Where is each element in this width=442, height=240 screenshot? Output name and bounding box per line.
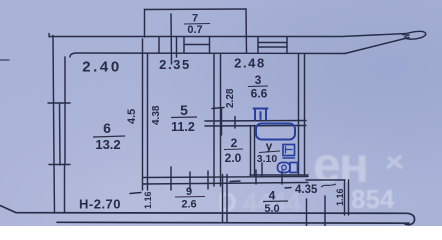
left inner wall lower: [64, 164, 66, 212]
top wall outer line: [49, 34, 407, 38]
window 1 right jamb: [209, 37, 211, 53]
room 5 label 5 over 11.2: [171, 102, 197, 134]
corridor top wall lower line: [143, 183, 308, 185]
svg-text:2.35: 2.35: [159, 57, 191, 72]
bath door tick: [261, 163, 263, 177]
window 2 sill line upper: [258, 42, 287, 44]
window 1 sill line: [184, 44, 210, 46]
vent symbol: [254, 109, 268, 120]
balcony label 7 over 0.7: [184, 13, 210, 37]
wall corridors divider line a: [222, 175, 224, 223]
dash on corridor wall: [230, 180, 240, 183]
lobby top line: [306, 179, 345, 181]
left outer wall upper: [52, 36, 55, 104]
right wall line b: [304, 54, 306, 174]
window tick a: [158, 37, 160, 53]
wall room2 bath line b: [254, 126, 256, 177]
toilet bowl: [278, 163, 291, 173]
lobby wall line a: [344, 180, 346, 215]
wall room3 bath upper line: [205, 120, 306, 123]
balcony left edge wall: [144, 10, 146, 38]
corridor label 9 over 2.6: [175, 186, 205, 211]
svg-text:11.2: 11.2: [171, 120, 195, 134]
left window top tick: [48, 102, 70, 104]
bottom tick t1: [324, 196, 326, 226]
watermark sparkle: [387, 156, 402, 168]
left window outer line: [53, 103, 56, 164]
svg-text:1.16: 1.16: [143, 191, 153, 209]
left window inner line: [64, 103, 66, 164]
door tick c3: [207, 171, 209, 189]
top wall inner line: [70, 53, 345, 57]
window 2 right jamb: [286, 37, 288, 53]
top wall end loop flourish: [403, 31, 426, 39]
wall room2 bath line a: [250, 126, 252, 177]
wall between room 5 and hall line b: [220, 54, 222, 187]
bottom tick t0: [306, 199, 308, 226]
bottom wall line 1: [0, 206, 415, 225]
door tick c4: [255, 170, 257, 184]
svg-text:4: 4: [269, 189, 276, 203]
svg-text:6: 6: [103, 120, 111, 136]
hall label 4 over 5.0: [263, 189, 288, 216]
left window bottom tick: [49, 164, 70, 166]
wall between room 5 and hall line a: [213, 54, 215, 187]
svg-text:5: 5: [180, 102, 188, 118]
svg-text:5.0: 5.0: [264, 203, 279, 215]
left outer wall lower: [53, 164, 56, 213]
svg-text:2.0: 2.0: [225, 151, 242, 165]
door tick on wall x235: [234, 117, 236, 129]
bathroom label у over 3.10: [257, 139, 280, 165]
wall between rooms 6 and 5 line b: [147, 54, 149, 191]
lobby wall line b: [348, 180, 350, 215]
wall corridors divider line b: [226, 175, 228, 223]
paper edge mark left: [0, 59, 9, 61]
balcony right edge wall: [245, 9, 248, 53]
svg-text:854: 854: [351, 184, 395, 214]
svg-text:2.6: 2.6: [181, 199, 196, 211]
toilet inner circle: [282, 165, 287, 170]
bottom wall line 2: [57, 221, 409, 224]
wall between rooms 6 and 5 line a: [142, 39, 144, 190]
door tick c1: [170, 167, 172, 190]
door tick c5: [281, 171, 283, 184]
sink lower edge: [283, 157, 295, 159]
svg-text:2.28: 2.28: [225, 88, 236, 108]
svg-text:3: 3: [255, 73, 262, 87]
left window glass line: [59, 103, 62, 165]
dash left of 4.35: [285, 187, 291, 190]
window 1 left jamb: [183, 37, 185, 53]
door jamb tick room2: [221, 109, 223, 135]
balcony left inner wall b: [176, 37, 178, 57]
door tick c2: [189, 172, 191, 190]
svg-text:0.7: 0.7: [187, 24, 202, 36]
room 6 label 6 over 13.2: [93, 120, 125, 152]
svg-text:13.2: 13.2: [95, 137, 120, 152]
svg-text:2.48: 2.48: [234, 56, 266, 71]
right wall line a: [298, 54, 300, 174]
svg-text:7: 7: [192, 13, 198, 25]
bathtub: [256, 124, 295, 140]
svg-text:4.5: 4.5: [126, 109, 138, 124]
svg-text:Н-2.70: Н-2.70: [79, 197, 121, 212]
dash near 1.16: [130, 193, 141, 194]
balcony left inner wall: [170, 14, 173, 64]
bath bottom wall upper: [250, 174, 308, 176]
corridor top wall upper line: [143, 177, 308, 178]
wall room3 bath lower line: [205, 125, 306, 128]
toilet tank: [290, 163, 298, 173]
svg-text:6.6: 6.6: [251, 87, 268, 101]
sink: [283, 145, 295, 156]
svg-text:4.35: 4.35: [295, 184, 318, 196]
svg-text:3.10: 3.10: [257, 153, 278, 165]
dimension 4.35 with squiggle: [295, 184, 336, 196]
room 3 label 3 over 6.6: [248, 73, 268, 101]
svg-text:2: 2: [231, 136, 238, 150]
window 2 left jamb: [257, 37, 259, 53]
room 2 label 2 over 2.0: [224, 136, 243, 165]
svg-text:4.38: 4.38: [151, 105, 162, 125]
window 2 sill line lower: [258, 46, 287, 48]
top-right diagonal wall: [345, 38, 409, 54]
svg-text:1.16: 1.16: [335, 188, 345, 206]
svg-text:2.40: 2.40: [82, 59, 122, 76]
door tick room3 left: [212, 108, 224, 109]
left inner wall upper: [64, 57, 66, 103]
svg-text:у: у: [266, 139, 273, 153]
balcony top line: [145, 8, 247, 11]
sink tap mark: [286, 147, 293, 154]
